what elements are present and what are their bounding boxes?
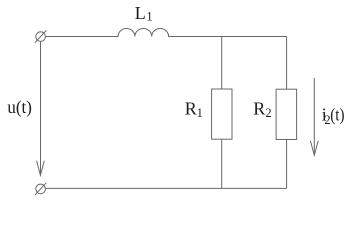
svg-text:1: 1 <box>146 10 152 24</box>
svg-text:1: 1 <box>197 106 203 120</box>
svg-text:L: L <box>135 3 146 23</box>
svg-text:u(t): u(t) <box>7 97 32 118</box>
svg-text:2: 2 <box>265 106 271 120</box>
svg-text:R: R <box>253 98 265 118</box>
svg-text:R: R <box>185 98 197 118</box>
svg-text:(t): (t) <box>330 105 344 126</box>
